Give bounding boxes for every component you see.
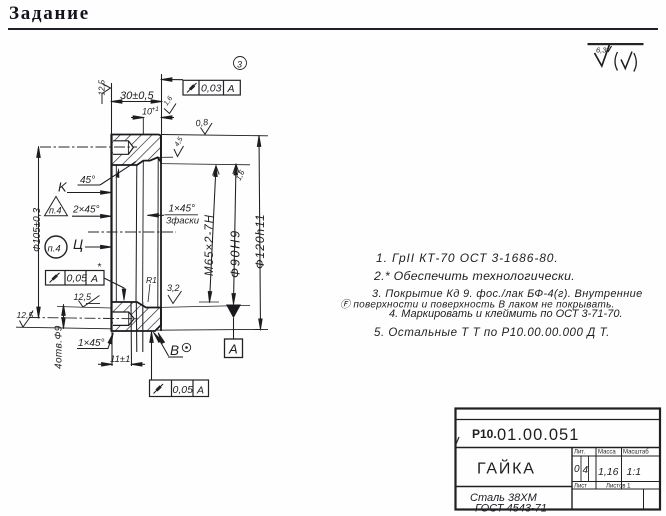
svg-text:4отв.Ф9: 4отв.Ф9 [54, 325, 65, 369]
svg-text:5. Остальные Т Т по Р10.00.00: 5. Остальные Т Т по Р10.00.00.000 Д Т. [374, 327, 610, 339]
svg-text:A: A [228, 342, 238, 357]
svg-text:Ц: Ц [73, 236, 83, 252]
svg-text:3: 3 [237, 60, 242, 70]
svg-text:Ф105±0,3: Ф105±0,3 [32, 208, 43, 252]
svg-text:3фаски: 3фаски [166, 216, 200, 227]
svg-text:Масса: Масса [598, 450, 616, 456]
svg-text:0: 0 [574, 464, 580, 475]
svg-text:2×45°: 2×45° [72, 205, 100, 216]
svg-text:B: B [170, 343, 179, 358]
svg-text:п.4: п.4 [49, 206, 61, 216]
svg-text:+1: +1 [152, 106, 160, 113]
svg-text:Ф90Н9: Ф90Н9 [229, 229, 243, 278]
svg-text:30±0,5: 30±0,5 [120, 90, 154, 102]
svg-text:10: 10 [142, 107, 152, 117]
svg-text:ГОСТ 4543-71: ГОСТ 4543-71 [475, 503, 547, 515]
svg-text:ГАЙКА: ГАЙКА [477, 459, 536, 478]
svg-text:A: A [196, 385, 204, 397]
svg-text:6,3: 6,3 [596, 46, 607, 55]
svg-text:0,05: 0,05 [173, 384, 194, 396]
svg-text:2.* Обеспечить технологически.: 2.* Обеспечить технологически. [373, 269, 575, 283]
svg-text:1. ГрII КТ-70 ОСТ 3-1686-80.: 1. ГрII КТ-70 ОСТ 3-1686-80. [376, 251, 559, 265]
svg-text:Листов 1: Листов 1 [606, 484, 631, 490]
svg-text:3. Покрытие Кд 9. фос./лак: 3. Покрытие Кд 9. фос./лак БФ-4(г). Внут… [372, 288, 643, 300]
svg-text:R1: R1 [146, 275, 157, 285]
svg-text:3,2: 3,2 [167, 283, 180, 293]
svg-text:12,5: 12,5 [17, 310, 34, 320]
svg-text:1,16: 1,16 [598, 466, 619, 478]
svg-text:Масштаб: Масштаб [623, 450, 649, 456]
svg-text:Лит.: Лит. [574, 450, 585, 456]
svg-text:0,05: 0,05 [67, 273, 88, 285]
svg-text:М65×2-7Н: М65×2-7Н [204, 214, 216, 276]
svg-text:12,5: 12,5 [98, 79, 107, 95]
svg-text:0,03: 0,03 [201, 83, 222, 95]
svg-text:4: 4 [583, 465, 589, 476]
svg-text:Ф120h11: Ф120h11 [253, 213, 267, 269]
svg-text:4. Маркировать и клеймить по О: 4. Маркировать и клеймить по ОСТ 3-71-70… [389, 308, 623, 320]
svg-text:A: A [227, 83, 235, 95]
svg-text:11±1: 11±1 [110, 354, 130, 365]
svg-text:1×45°: 1×45° [169, 204, 196, 215]
svg-text:1:1: 1:1 [627, 466, 642, 478]
svg-text:A: A [90, 273, 98, 285]
svg-text:п.4: п.4 [48, 244, 61, 255]
svg-text:0,8: 0,8 [195, 117, 209, 129]
svg-text:K: K [58, 180, 68, 195]
svg-text:01.00.051: 01.00.051 [497, 426, 579, 444]
svg-text:Р10.: Р10. [472, 427, 497, 441]
svg-text:Лист: Лист [574, 484, 587, 490]
svg-text:12,5: 12,5 [74, 292, 93, 302]
svg-text:1×45°: 1×45° [78, 338, 105, 349]
svg-text:45°: 45° [80, 175, 95, 186]
